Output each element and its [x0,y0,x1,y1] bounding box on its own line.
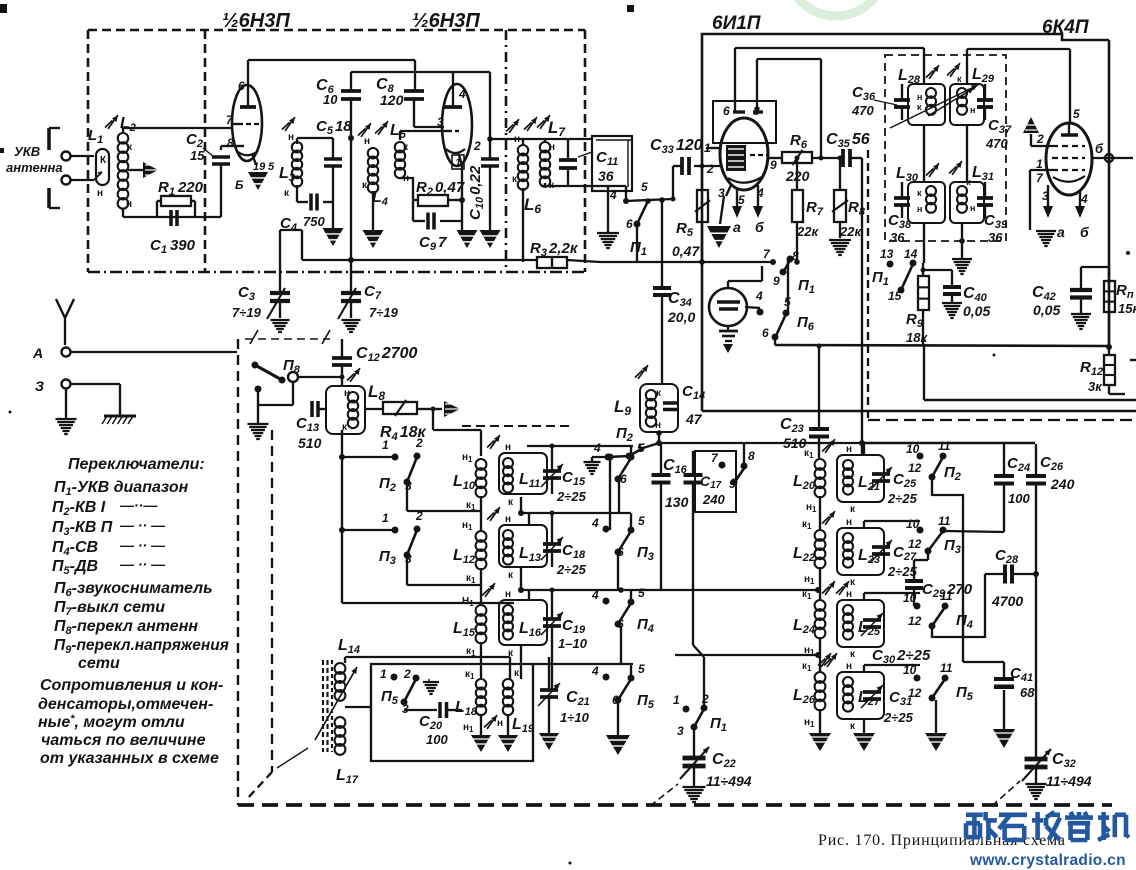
svg-text:½6Н3П: ½6Н3П [412,10,480,32]
svg-text:470: 470 [851,103,874,118]
band unit dashed border bottom [238,803,1112,807]
band unit dashed border left [238,339,272,805]
wire L31 to ground [959,223,965,258]
coil L12 [453,520,486,585]
ground at P5-2 [423,679,439,694]
svg-text:5: 5 [268,161,275,173]
wire anode U1a top bus [248,59,415,61]
svg-text:н: н [364,136,370,147]
resistor R6 220 [782,132,812,184]
svg-text:8: 8 [753,104,760,118]
ground under L31 [952,258,972,260]
svg-text:4: 4 [755,289,763,303]
resistor R3 2.2k [530,240,579,268]
dash-dot unit border top middle [462,425,572,427]
switch P1 oscillator contacts [773,248,815,296]
grounds under L18 L19 [471,714,518,752]
capacitor C41 68 [963,662,1035,729]
svg-text:П4-СВ: П4-СВ [52,539,98,558]
ground under L4 [363,191,384,248]
svg-text:4: 4 [458,87,466,101]
capacitor C29 270 [905,560,973,606]
svg-text:а: а [1057,224,1065,240]
coil L9 with C14 [614,365,705,432]
coil L25 box [836,581,884,660]
chain wires left half [481,496,529,679]
wire P3-3 to L15 [342,530,481,585]
svg-text:УКВ: УКВ [14,144,40,159]
converter section box [702,34,1136,411]
svg-text:— ·· —: — ·· — [119,517,166,533]
capacitor C38 36 [888,182,912,245]
svg-text:З: З [35,378,44,394]
wire pin4 to P1 [609,186,673,204]
svg-text:к: к [917,102,922,112]
svg-text:4: 4 [593,441,601,455]
svg-text:20,0: 20,0 [667,309,695,325]
svg-text:13: 13 [880,247,894,261]
switch P2 IF contacts 7 8 9 [711,443,755,491]
ground under C11 row [597,186,619,248]
core tuning arrows of IF1 [890,85,978,128]
svg-text:68: 68 [1020,685,1035,700]
wire L2 bottom row [122,209,124,217]
ground under C32 [1026,783,1047,785]
svg-text:100: 100 [1008,491,1030,506]
svg-text:0,47: 0,47 [672,243,700,259]
anode load wire [757,59,821,158]
svg-text:10: 10 [903,591,917,605]
het bus vertical [339,430,514,603]
trimmer C3 7/19 [232,230,302,320]
svg-text:4: 4 [591,516,599,530]
switch P5 left contacts [380,667,437,716]
svg-text:10: 10 [903,663,917,677]
switch P2 right contacts 10 11 12 [906,439,963,662]
IF filter box C11 36 [592,136,632,191]
green watermark arc [786,0,886,16]
svg-text:н: н [549,142,555,153]
svg-text:Сопротивления и кон-: Сопротивления и кон- [40,677,223,694]
bus LW right [675,652,821,658]
svg-text:сети: сети [78,655,120,672]
resistor R7 22k [792,156,824,265]
capacitor C8 120 [376,60,444,127]
tap arrow on L2 [128,162,158,178]
coil L18 [455,669,486,734]
svg-text:6: 6 [723,104,730,118]
resistor R9 18k [906,263,929,346]
triode U1a (1/2 6N3P) [226,60,275,192]
svg-text:C122700: C122700 [356,345,418,364]
switch P5 right contacts 10 11 12 [903,661,974,733]
coil L13 box [487,507,547,581]
receiving antenna symbol [56,299,74,345]
switch P3 right contacts 4 5 6 [591,513,654,590]
svg-text:6К4П: 6К4П [1042,17,1089,38]
ground under P8 [248,405,269,439]
svg-text:8: 8 [748,449,755,463]
svg-text:денсаторы,отмечен-: денсаторы,отмечен- [38,696,213,713]
svg-text:36: 36 [598,168,614,184]
capacitor C26 240 [1026,444,1075,758]
trimmer C7 7/19 [338,283,399,320]
svg-text:R32,2к: R32,2к [530,240,579,259]
wire L13 top to P3 right [518,510,631,526]
FM unit dashed enclosure [88,30,585,272]
resistor R1 220 [157,179,204,217]
svg-text:антенна: антенна [6,160,63,175]
capacitor C20 100 [419,702,462,747]
wire L5 to grid [399,131,401,140]
svg-text:Переключатели:: Переключатели: [68,456,205,473]
svg-text:П3-КВ П: П3-КВ П [52,519,113,538]
coupling dash to C22 [650,784,678,806]
svg-text:18к: 18к [906,330,928,345]
svg-text:1: 1 [455,157,461,169]
svg-text:н: н [846,517,852,528]
wire C2 top to tube pin 8 [220,146,222,150]
svg-text:3: 3 [677,724,684,738]
capacitor C1 390 [150,210,196,256]
svg-text:11: 11 [940,661,953,675]
svg-text:15: 15 [190,148,205,163]
wire L27 top to P5 contacts [863,665,865,672]
cathode arrows a b of U2 [732,196,764,235]
switch P1 IF contacts 13 14 15 [872,223,924,303]
inner LW box [371,664,633,761]
ground under P5-6 [606,702,630,755]
capacitor C24 100 [946,444,1030,532]
resistor R11 15k [1104,267,1136,347]
svg-text:н: н [126,199,132,210]
coil L23 box [837,517,884,588]
wire L21 top to bus [864,443,1035,455]
wire C17 down to P1 [693,512,704,707]
svg-text:б: б [1095,141,1104,156]
trimmer C15 2-25 [541,446,587,504]
trimmer C27 2-25 [870,540,918,579]
resistor R5 0.47 [672,164,710,265]
svg-text:12: 12 [908,537,922,551]
svg-text:5: 5 [641,180,648,194]
ground under U3 [1030,230,1056,246]
transformer L30 [896,161,962,223]
capacitor C12 2700 [332,339,418,386]
svg-text:от указанных в схеме: от указанных в схеме [40,750,219,767]
svg-text:0,05: 0,05 [1033,302,1060,318]
svg-text:2: 2 [415,509,423,523]
anode wire of U3 [1069,124,1133,162]
transformer L28 [898,65,945,125]
box with C17 240 [684,451,737,512]
svg-text:22к: 22к [839,224,862,239]
switch P3 right contacts 10 11 12 [906,514,961,560]
svg-text:2: 2 [415,436,423,450]
watermark chinese character yin [1077,812,1082,818]
ground under C22 [683,786,706,788]
coil L20 [793,439,835,514]
svg-text:П8-перекл антенн: П8-перекл антенн [54,618,198,637]
capacitor C28 4700 [985,547,1036,609]
svg-text:12: 12 [908,614,922,628]
svg-text:н: н [970,105,975,115]
svg-text:—··—: —··— [119,497,158,513]
ground under C10 [480,230,501,248]
svg-text:510: 510 [298,435,322,451]
watermark chinese character shi [999,812,1027,817]
cathode wires of U3 [1030,170,1089,240]
trimmer C31 2-25 [861,685,914,725]
grounds under L26 L27 [809,709,875,751]
svg-text:1: 1 [382,438,389,452]
trimmer C21 1-10 [538,657,590,733]
svg-text:470: 470 [985,136,1008,151]
capacitor C4 750 [280,185,333,234]
wire screen grid to L28 [735,48,924,84]
AGC bus [775,344,1112,350]
svg-text:1: 1 [673,693,680,707]
capacitor C6 10 [316,72,361,293]
capacitor C23 510 [780,344,829,459]
trimmer C25 2-25 [870,455,918,506]
switch P3 left contacts [379,509,423,567]
resistor R4 18k [365,400,433,443]
svg-text:11: 11 [938,514,951,528]
svg-text:5: 5 [1073,107,1080,121]
ground under C3 [271,319,290,321]
tuning gang coupling dashes [245,330,330,344]
arrow to FM antenna [433,401,460,417]
svg-text:Рис. 170. Принципиальная схема: Рис. 170. Принципиальная схема [818,832,1066,849]
svg-text:2÷25: 2÷25 [556,489,587,504]
wire heterodyne coupling [859,158,865,455]
svg-text:12: 12 [908,461,922,475]
svg-text:C33120: C33120 [650,137,703,156]
coil L4 [358,123,388,208]
svg-text:5: 5 [638,441,645,455]
capacitor C11 plates [559,139,592,186]
ground below A [56,389,77,434]
svg-text:½6Н3П: ½6Н3П [222,10,290,32]
svg-text:н: н [970,203,975,213]
svg-text:2: 2 [473,139,481,153]
svg-text:120: 120 [380,92,404,108]
svg-text:— ·· —: — ·· — [119,556,166,572]
svg-text:R20,47: R20,47 [416,179,465,198]
capacitor C16 130 [652,443,689,591]
svg-text:П1-УКВ диапазон: П1-УКВ диапазон [54,479,189,498]
legend text [38,456,229,767]
cathode ground of U1a [248,172,268,190]
AGC to band unit wire [924,346,1136,400]
svg-text:П7-выкл сети: П7-выкл сети [54,599,165,618]
bus MW-LW left [521,587,821,593]
heptode U2 (6I1P) [704,48,777,207]
capacitor C37 470 [977,84,1012,151]
svg-text:Б: Б [235,178,244,192]
svg-text:2÷25: 2÷25 [883,710,914,725]
wire A to band unit [71,351,237,353]
triode U1b (1/2 6N3P) [437,72,481,169]
capacitor C5 18 [297,118,352,228]
svg-text:н: н [505,589,511,600]
wire L9 to P2 box [659,442,864,444]
trimmer C22 11-494 [680,729,752,789]
coil L3 [279,117,302,199]
wire L9 down [656,430,662,446]
svg-text:6И1П: 6И1П [712,13,761,34]
svg-text:www.crystalradio.cn: www.crystalradio.cn [969,852,1126,869]
capacitor C10 0.22 [467,72,499,230]
svg-text:6: 6 [626,217,633,231]
svg-text:н: н [497,718,503,729]
terminal A [32,345,71,361]
capacitor C34 20.0 [653,200,695,384]
electrode wires of U2 [694,148,782,196]
coil L10 [453,452,486,512]
svg-text:5: 5 [738,193,745,207]
svg-text:1–10: 1–10 [558,636,588,651]
capacitor C2 15 [186,131,230,217]
svg-text:750: 750 [303,214,325,229]
svg-text:9: 9 [773,274,780,288]
capacitor C40 0.05 [921,268,991,320]
wire C33 to IF input [671,166,676,202]
earth ground [71,384,136,424]
svg-text:12: 12 [908,686,922,700]
capacitor C42 0.05 [1032,267,1109,318]
wire R4 down to L10 [431,407,482,457]
coil L7 [524,115,566,191]
svg-text:14: 14 [904,247,918,261]
svg-text:2: 2 [1036,132,1044,146]
antenna loop L1 [88,127,109,199]
bottom bus of FM unit [302,230,600,262]
UKV antenna terminals [6,128,94,208]
svg-text:н: н [505,442,511,453]
svg-text:4: 4 [609,188,617,202]
transformer L29 [947,63,995,125]
switch P4 right contacts 10 11 12 [903,574,985,637]
ground under C21 [539,733,559,750]
svg-text:C518: C518 [316,118,352,137]
svg-text:4: 4 [591,664,599,678]
ground under U2 pin3 [707,196,731,248]
wire L6 L7 tops [487,136,592,145]
wire L2 top to tube grid [122,128,124,133]
svg-text:А: А [32,345,43,361]
band unit dashed border right [868,150,1136,420]
coil L27 box [824,653,884,732]
svg-text:3: 3 [437,115,444,129]
svg-text:ные*, могут отли: ные*, могут отли [38,713,185,731]
switch P2 right contacts 4 5 6 [593,441,645,530]
coupling dash to C32 [992,781,1020,806]
svg-text:2÷25: 2÷25 [556,562,587,577]
wire L6 bottom to bus [522,188,524,262]
svg-text:100: 100 [426,732,448,747]
svg-text:2: 2 [701,692,709,706]
coil L21 box [837,444,884,515]
coil L26 [793,653,831,729]
coil L22 [793,511,835,586]
coil L24 [793,581,835,657]
capacitor C39 36 [977,182,1008,245]
svg-text:П5-ДВ: П5-ДВ [52,558,98,577]
svg-text:6: 6 [762,326,769,340]
transformer L31 [950,164,994,223]
svg-text:11: 11 [938,439,951,453]
svg-text:8: 8 [792,249,799,263]
trimmer C18 2-25 [541,513,587,577]
switch P8 [252,357,301,405]
wire L25 top to P4 contacts [863,593,865,600]
svg-text:R1220: R1220 [158,179,204,198]
ground under C41 [993,729,1015,748]
AGC arrow to grid of U3 [1023,117,1052,146]
svg-text:П6-звукосниматель: П6-звукосниматель [54,580,213,599]
wire L11 top to P2 right [527,444,633,449]
pentode U3 (6K4P) [1036,107,1104,206]
coil L2 [105,115,136,210]
svg-text:н: н [344,388,350,399]
ground under C5 [323,228,344,246]
svg-text:н: н [917,92,922,102]
svg-text:н: н [288,132,294,143]
switch P1 ant contacts [673,692,727,738]
svg-text:— ·· —: — ·· — [119,537,166,553]
svg-text:1: 1 [382,511,389,525]
svg-text:130: 130 [665,494,689,510]
svg-text:н: н [97,188,103,199]
trimmer C19 1-10 [541,590,588,691]
svg-text:4700: 4700 [991,593,1023,609]
wire P2-3 to L12 [342,428,481,511]
wire L28 to L30 [923,125,925,182]
wire L29 top to 6K4P [967,49,1070,124]
svg-text:н: н [655,420,661,431]
svg-text:н: н [846,661,852,672]
coil L5 [375,121,409,184]
capacitor C35 56 [812,131,870,167]
svg-text:22к: 22к [796,224,819,239]
svg-text:C100,22: C100,22 [467,165,486,220]
trimmer C32 11-494 [1022,749,1092,789]
switch P6 pickup contacts [745,261,815,345]
svg-text:н: н [917,204,922,214]
svg-text:2÷25: 2÷25 [887,491,918,506]
svg-text:н: н [505,514,511,525]
svg-text:7÷19: 7÷19 [369,305,399,320]
wire P8 to L8 [298,375,345,380]
svg-text:1÷10: 1÷10 [560,710,590,725]
svg-text:0,05: 0,05 [963,303,990,319]
svg-text:а: а [733,219,741,235]
svg-text:5: 5 [638,662,645,676]
coil L14 L17 with core [277,637,371,786]
svg-text:8: 8 [227,136,234,150]
coil L16 box [482,583,547,659]
oscillator bus [568,247,776,265]
capacitor C36 470 [851,84,910,120]
svg-text:2: 2 [403,667,411,681]
ground under C40 [942,302,962,304]
svg-text:4: 4 [1080,192,1088,206]
switch P4 right contacts 4 5 6 [591,586,654,664]
switch P5 right contacts 4 5 6 [591,662,655,711]
ground under triode [719,326,738,353]
